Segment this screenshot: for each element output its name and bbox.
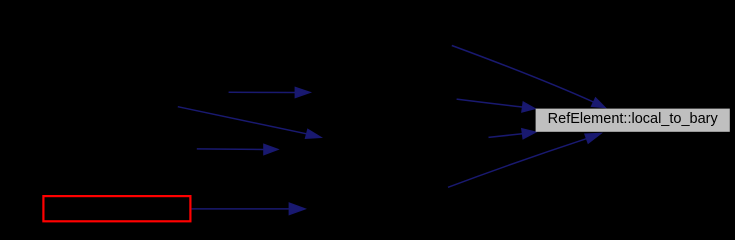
edge: lower-mid caller to local_to_bary (left edge, lower)	[489, 129, 537, 140]
node: current function (red border, transparent fill)	[43, 196, 190, 221]
edge: left column, short horizontal arrow (upper)	[229, 87, 311, 98]
svg-text:RefElement::local_to_bary: RefElement::local_to_bary	[548, 111, 719, 127]
node: RefElement::local_to_bary (gray filled)	[536, 109, 730, 132]
edge: top caller to local_to_bary (long diagonal into box top)	[452, 46, 606, 108]
edge: left column, short horizontal arrow (lower)	[197, 144, 278, 155]
edge: mid caller to local_to_bary (left edge, upper)	[457, 99, 536, 112]
edge: from red current node, horizontal arrow	[192, 203, 306, 215]
edge: left column, diagonal arrow	[178, 107, 322, 139]
edge: bottom caller to local_to_bary (long curve into box bottom)	[448, 133, 601, 187]
